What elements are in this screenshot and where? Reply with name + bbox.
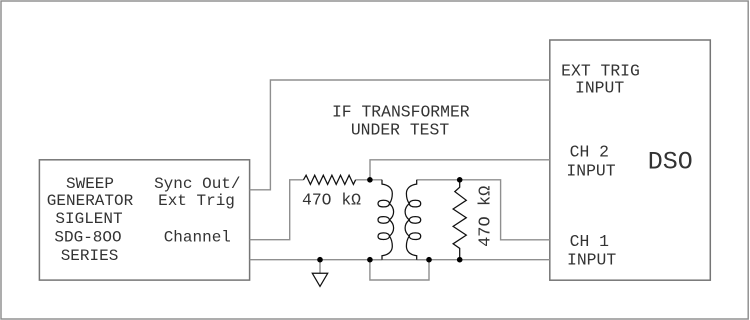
svg-text:47O kΩ: 47O kΩ <box>476 186 495 247</box>
svg-text:UNDER TEST: UNDER TEST <box>351 121 450 140</box>
svg-text:Ext Trig: Ext Trig <box>158 192 235 210</box>
svg-text:CH 1: CH 1 <box>570 232 610 251</box>
svg-text:GENERATOR: GENERATOR <box>47 192 134 210</box>
svg-text:EXT TRIG: EXT TRIG <box>561 62 640 81</box>
svg-text:47O kΩ: 47O kΩ <box>302 191 361 210</box>
svg-text:SWEEP: SWEEP <box>66 175 114 193</box>
svg-text:INPUT: INPUT <box>575 79 624 98</box>
svg-text:DSO: DSO <box>648 148 693 177</box>
svg-text:SIGLENT: SIGLENT <box>55 210 122 228</box>
svg-text:INPUT: INPUT <box>567 251 616 270</box>
svg-text:SDG-8OO: SDG-8OO <box>54 228 121 246</box>
svg-text:CH 2: CH 2 <box>570 143 609 162</box>
svg-text:Sync Out/: Sync Out/ <box>154 175 240 193</box>
svg-text:IF TRANSFORMER: IF TRANSFORMER <box>332 103 470 122</box>
svg-text:INPUT: INPUT <box>566 161 615 180</box>
svg-text:SERIES: SERIES <box>61 247 119 265</box>
svg-text:Channel: Channel <box>164 228 231 246</box>
